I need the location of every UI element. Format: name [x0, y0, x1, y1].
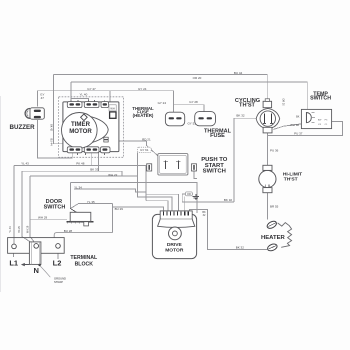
svg-text:GY 47: GY 47 — [87, 87, 96, 91]
svg-text:OR: OR — [187, 193, 191, 196]
svg-text:RD 21: RD 21 — [142, 137, 151, 141]
svg-text:N: N — [33, 266, 38, 275]
svg-text:(HEATER): (HEATER) — [133, 113, 154, 118]
svg-text:SWITCH: SWITCH — [44, 204, 66, 210]
svg-text:SWITCH: SWITCH — [310, 96, 331, 102]
svg-text:PU 37: PU 37 — [294, 132, 303, 136]
svg-text:BK 33: BK 33 — [90, 168, 99, 172]
svg-text:SWITCH: SWITCH — [203, 169, 226, 175]
svg-text:HEATER: HEATER — [261, 235, 286, 241]
svg-text:GY 61: GY 61 — [140, 148, 149, 152]
svg-text:BU 44: BU 44 — [234, 71, 243, 75]
svg-text:BUZZER: BUZZER — [10, 124, 36, 131]
svg-text:BK 32: BK 32 — [236, 114, 245, 118]
svg-text:START: START — [205, 163, 225, 169]
svg-text:YL 43: YL 43 — [9, 226, 12, 233]
svg-text:BK 25: BK 25 — [18, 226, 21, 233]
svg-text:L1: L1 — [9, 259, 18, 268]
svg-text:YL 35: YL 35 — [87, 200, 95, 204]
svg-text:YL 43: YL 43 — [21, 162, 29, 166]
svg-text:GROUND: GROUND — [54, 276, 66, 280]
svg-text:YL 34: YL 34 — [74, 185, 82, 189]
svg-text:BU 28: BU 28 — [64, 229, 73, 233]
svg-text:FUSE: FUSE — [210, 133, 225, 139]
svg-text:WH 38: WH 38 — [290, 123, 300, 127]
svg-text:GY 24: GY 24 — [138, 87, 147, 91]
svg-text:DRIVE: DRIVE — [167, 242, 183, 248]
svg-text:STRAP: STRAP — [54, 280, 63, 284]
svg-text:HI-LIMIT: HI-LIMIT — [283, 171, 302, 177]
svg-text:WH 22: WH 22 — [108, 173, 118, 177]
svg-text:BR 55: BR 55 — [270, 205, 279, 209]
svg-text:MOTOR: MOTOR — [165, 248, 184, 254]
svg-text:PUSH TO: PUSH TO — [201, 157, 227, 163]
svg-text:GY 24: GY 24 — [158, 101, 167, 105]
svg-text:YL 40: YL 40 — [80, 93, 88, 97]
svg-text:BLOCK: BLOCK — [75, 262, 94, 268]
svg-text:BK 42: BK 42 — [49, 124, 52, 131]
svg-text:BK: BK — [202, 211, 206, 214]
svg-text:PU 36: PU 36 — [270, 148, 279, 152]
svg-text:WH: WH — [110, 107, 114, 111]
svg-text:L2: L2 — [53, 259, 62, 268]
svg-text:TH'ST: TH'ST — [239, 103, 256, 109]
svg-text:PK 48: PK 48 — [76, 162, 85, 166]
svg-text:GY 28: GY 28 — [189, 100, 198, 104]
svg-text:BK: BK — [296, 115, 300, 118]
svg-text:BK 32: BK 32 — [224, 198, 233, 202]
svg-text:BU 44: BU 44 — [49, 139, 52, 147]
svg-text:GY 51: GY 51 — [187, 121, 196, 125]
svg-text:BK 32: BK 32 — [236, 246, 245, 250]
svg-text:47: 47 — [41, 96, 45, 100]
svg-text:WH 29: WH 29 — [27, 225, 30, 233]
svg-text:OR 20: OR 20 — [281, 98, 284, 106]
svg-text:BU 29: BU 29 — [115, 207, 124, 211]
svg-text:TIMER: TIMER — [71, 121, 91, 128]
svg-text:WH 29: WH 29 — [38, 216, 48, 220]
svg-text:OR 20: OR 20 — [193, 76, 202, 80]
svg-text:TH'ST: TH'ST — [284, 177, 298, 183]
svg-text:TERMINAL: TERMINAL — [70, 255, 98, 261]
svg-text:MOTOR: MOTOR — [69, 128, 92, 135]
